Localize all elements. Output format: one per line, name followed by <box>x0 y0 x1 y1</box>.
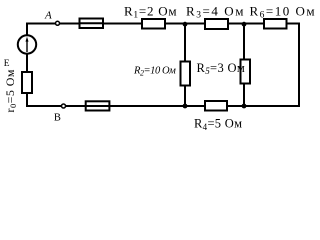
junction node bottom-left <box>183 104 188 109</box>
resistor R6 <box>264 19 287 29</box>
svg-text:R3=4 Ом: R3=4 Ом <box>186 3 245 20</box>
wire right vertical <box>298 23 300 108</box>
svg-text:R1=2 Ом: R1=2 Ом <box>124 3 177 20</box>
resistor R4 <box>205 101 227 111</box>
resistor R5 (vertical) <box>241 60 251 84</box>
resistor R2 (vertical) <box>181 62 191 86</box>
internal resistance r0 <box>22 72 32 93</box>
svg-text:R4=5 Ом: R4=5 Ом <box>194 117 242 132</box>
junction node top-right <box>242 22 247 27</box>
node A <box>56 21 60 25</box>
resistor R1 <box>142 19 165 29</box>
wire left vertical <box>26 23 28 108</box>
svg-text:В: В <box>54 112 61 123</box>
svg-text:R5=3 Ом: R5=3 Ом <box>197 61 246 76</box>
svg-text:R6=10 Ом: R6=10 Ом <box>250 3 317 20</box>
svg-text:Ε: Ε <box>4 59 10 69</box>
resistor R3 <box>205 19 228 29</box>
EMF source E (circle with up arrow) <box>18 35 36 53</box>
wire R2 branch vertical <box>184 24 186 107</box>
wire bottom horizontal <box>27 105 299 107</box>
resistor top unlabeled <box>80 19 104 29</box>
junction node bottom-right <box>242 104 247 109</box>
wire R5 branch vertical <box>243 24 245 107</box>
svg-text:А: А <box>44 9 52 21</box>
node B <box>62 104 66 108</box>
svg-text:R2=10 Ом: R2=10 Ом <box>133 66 176 78</box>
junction node top-left <box>183 22 188 27</box>
resistor bottom unlabeled <box>86 101 110 110</box>
wire top horizontal A to right corner <box>27 23 299 25</box>
